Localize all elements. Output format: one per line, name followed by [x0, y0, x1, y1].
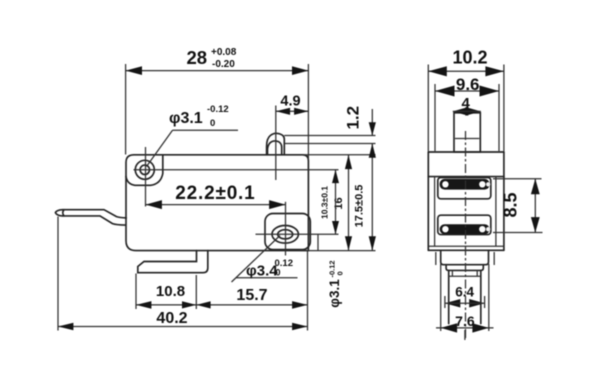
extension lines 10.2 — [428, 65, 504, 152]
slot2 rivet right — [479, 226, 485, 232]
svg-text:15.7: 15.7 — [236, 287, 267, 304]
plunger centerline — [275, 106, 277, 181]
right view body sides — [428, 152, 504, 250]
extension line terminal x202 — [195, 275, 197, 309]
dimension line 10.8 and 15.7 — [136, 304, 308, 306]
svg-text:1.2: 1.2 — [344, 106, 363, 130]
svg-text:16: 16 — [333, 197, 345, 209]
plunger button inner arc — [268, 141, 282, 155]
right view shoulder top edge — [428, 151, 504, 153]
right view inner bottom line — [428, 245, 504, 247]
mounting lug boundary top-left — [126, 155, 163, 186]
centerline through H2 horizontal — [256, 233, 339, 235]
button inner line — [455, 138, 479, 140]
bottom step 1 — [441, 250, 489, 264]
bottom terminal inner lines — [449, 270, 481, 276]
svg-text:0: 0 — [336, 271, 345, 275]
dimension line 1.2 upper part — [371, 109, 373, 136]
svg-text:φ3.1: φ3.1 — [169, 110, 203, 127]
svg-text:9.6: 9.6 — [456, 75, 480, 94]
right view bottom edge — [428, 249, 504, 251]
centerline through H1 vertical — [145, 147, 147, 207]
dimension line 22.2 — [146, 204, 286, 206]
extension line body top right — [303, 154, 376, 156]
bottom terminal front — [449, 270, 481, 323]
slot2 clip notch — [486, 227, 490, 231]
extension line terminal left x136 — [135, 274, 137, 310]
bottom terminal hook — [138, 251, 208, 273]
svg-text:0: 0 — [276, 268, 281, 278]
svg-text:+0.08: +0.08 — [211, 47, 237, 58]
extension line body bottom right — [300, 250, 376, 252]
slot1 clip notch — [486, 182, 490, 186]
dimension line 40.2 — [58, 326, 308, 328]
terminal slot 2 black — [440, 224, 490, 234]
svg-text:40.2: 40.2 — [156, 310, 187, 327]
slot1 rivet right — [479, 181, 485, 187]
extension line left for 28 — [125, 64, 127, 155]
svg-text:17.5±0.5: 17.5±0.5 — [354, 185, 366, 228]
svg-text:28: 28 — [187, 47, 208, 68]
svg-text:10.2: 10.2 — [452, 48, 487, 68]
svg-text:4.9: 4.9 — [280, 94, 300, 110]
terminal block 2 outer — [438, 215, 491, 234]
dimension 4 bold bowtie — [453, 107, 468, 116]
bottom step 2 — [446, 265, 483, 271]
svg-text:10.8: 10.8 — [156, 283, 185, 300]
mounting hole H1 outer — [135, 160, 154, 179]
lever arm bottom edge — [63, 216, 126, 225]
extension lines 9.6 — [435, 84, 499, 151]
centerline through H2 vertical — [285, 202, 287, 256]
extension lines 7.6 — [441, 264, 489, 331]
centerline through H1 horizontal — [134, 169, 339, 171]
extension line right for 28 and 4.9 — [307, 64, 309, 160]
lever arm top edge — [63, 210, 127, 218]
dimension line 17.5 — [371, 144, 373, 251]
svg-text:6.4: 6.4 — [455, 285, 474, 300]
label phi3.1 rotated right — [327, 260, 345, 307]
switch body outline (side view) — [126, 155, 308, 251]
svg-text:0: 0 — [210, 118, 215, 129]
right view inner grooves — [435, 177, 496, 247]
leader shelf phi3.4 — [236, 277, 298, 279]
mounting hole H2 outer — [272, 226, 298, 244]
extension lines 8.5 — [493, 179, 543, 233]
bottom center tick — [464, 330, 466, 340]
lever tip cap — [55, 210, 62, 216]
center line right view — [465, 131, 467, 340]
dimension 6.4 bowtie — [445, 299, 460, 308]
svg-text:-0.20: -0.20 — [212, 59, 235, 70]
svg-text:φ3.1: φ3.1 — [327, 279, 342, 308]
extension ticks 6.4 — [445, 296, 485, 308]
lever tip inner fold — [63, 210, 64, 216]
leader shelf phi3.1 — [173, 129, 239, 131]
side stub lines below body — [436, 252, 494, 265]
dimension line 28 — [126, 70, 309, 72]
dimension line 9.6 — [435, 90, 499, 92]
slot2 rivet left — [442, 226, 448, 232]
extension line button top y1 — [284, 135, 375, 137]
svg-text:22.2±0.1: 22.2±0.1 — [175, 183, 255, 204]
extension line body right lower — [307, 251, 309, 331]
right view head bottom line — [428, 176, 504, 178]
dimension line 8.5 — [534, 179, 536, 233]
plunger button outer (side view) — [267, 133, 285, 155]
dimension line 4.9 — [276, 110, 309, 112]
svg-text:4: 4 — [462, 95, 471, 112]
terminal block 1 outer — [438, 178, 491, 199]
leader phi3.1 — [147, 130, 173, 166]
mounting lug bottom-right — [265, 214, 310, 250]
leader phi3.4 — [232, 236, 281, 283]
plunger button front view — [454, 113, 480, 152]
svg-text:8.5: 8.5 — [501, 192, 521, 217]
svg-text:-0.12: -0.12 — [207, 104, 229, 115]
svg-text:10.3±0.1: 10.3±0.1 — [320, 186, 330, 219]
mounting hole H2 inner — [278, 230, 293, 239]
mounting hole H1 inner — [140, 165, 149, 174]
svg-text:φ3.4: φ3.4 — [246, 263, 278, 280]
svg-text:7.6: 7.6 — [455, 313, 475, 329]
slot1 rivet left — [442, 181, 448, 187]
dimension line 16 — [348, 155, 350, 251]
extension line button y2 — [284, 143, 375, 145]
short extension x318 — [317, 234, 319, 250]
dimension line 7.6 — [436, 327, 494, 329]
dimension line 10.2 — [428, 70, 504, 72]
dimension line 10.3 — [335, 170, 337, 235]
terminal slot 1 black — [440, 179, 490, 190]
extension line from lever tip — [57, 217, 59, 331]
